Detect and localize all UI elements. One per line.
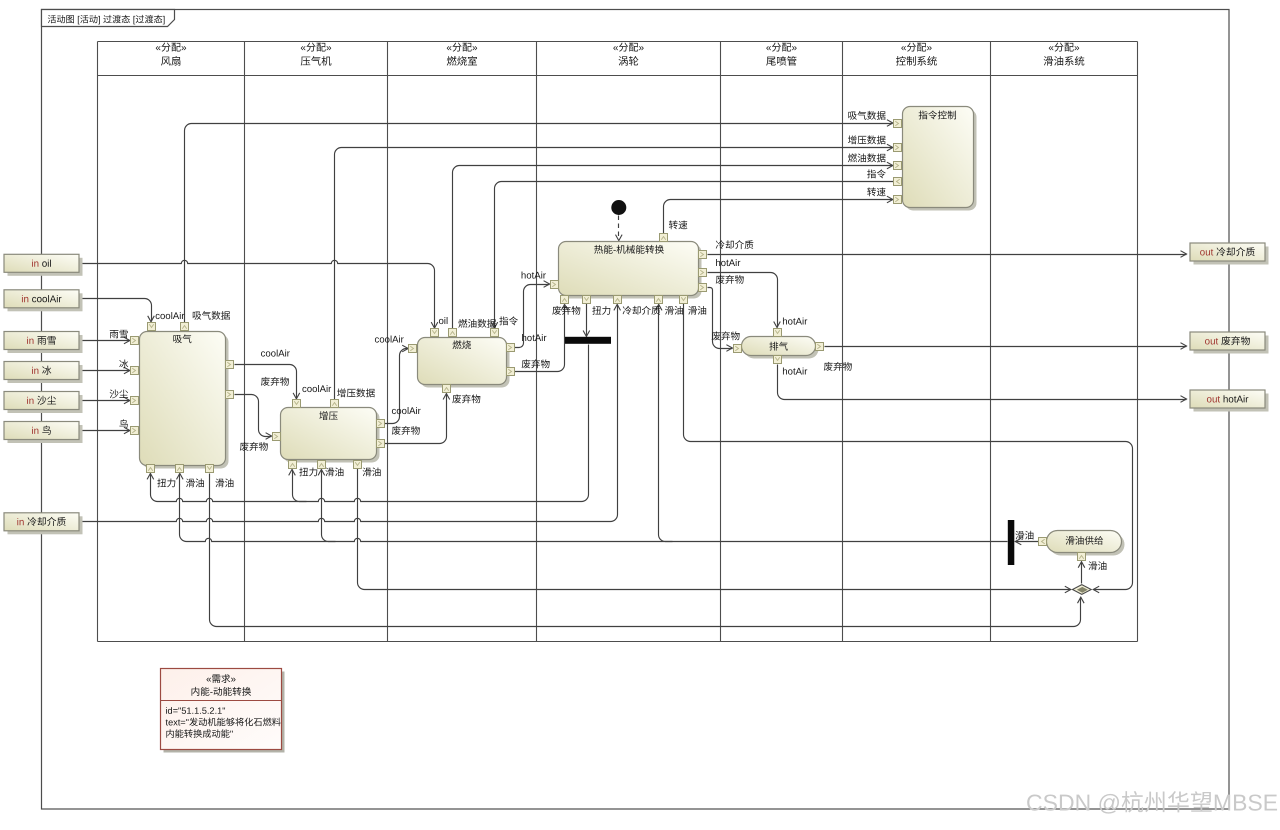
wire 热能.hotAir -> 排气.hotAir (708, 273, 778, 328)
wire in 沙尘 (79, 400, 130, 402)
wire 燃烧.废弃物 -> 热能.废弃物 (515, 305, 565, 372)
wire labels (156, 312, 185, 319)
wire 增压.滑油 -> merge diamond (358, 469, 1071, 590)
wire in oil -> 燃烧.oil (79, 260, 435, 327)
wire 增压.废弃物 -> 燃烧.废弃物 (385, 394, 447, 444)
pins of action 指令控制 (894, 120, 902, 128)
wire 热能.废弃物 -> 排气.废弃物 (708, 288, 733, 349)
pins of action 热能-机械能转换 (660, 234, 668, 242)
wire 吸气数据 -> 指令控制 (185, 124, 893, 323)
action 指令控制 (906, 110, 977, 211)
initial edge (dashed) (618, 216, 620, 240)
pins of action 滑油供给 (1039, 538, 1047, 546)
output parameter nodes: out 冷却介质 / out 废弃物 / out hotAir (1194, 247, 1269, 265)
requirement note «需求» 内能-动能转换 (164, 672, 285, 753)
swimlane headers «分配» 风扇/压气机/燃烧室/涡轮/尾喷管/控制系统/滑油系统 (156, 43, 186, 52)
wire 吸气.废弃物 -> 增压.废弃物 (235, 395, 272, 437)
wire 增压数据 -> 指令控制 (335, 148, 893, 400)
wire 热能.冷却介质 -> out 冷却介质 (708, 254, 1187, 256)
wire bar -> 吸气.扭力 / 增压.扭力 (151, 345, 589, 502)
wire in 鸟 (79, 430, 130, 432)
pins of action 吸气 (148, 323, 156, 331)
pins of action 增压 (293, 400, 301, 408)
wire 燃烧.hotAir -> 热能.hotAir (515, 285, 550, 348)
wire 排气 -> out 废弃物 (825, 346, 1187, 348)
action 燃烧 (421, 341, 510, 388)
pins of action 燃烧 (431, 329, 439, 337)
wire 吸气.滑油 -> merge diamond (bottom) (210, 474, 1081, 627)
wire in 冷却介质 -> 热能.冷却介质 (79, 305, 618, 522)
wire in 雨雪 (79, 340, 130, 342)
wire merge diamond -> 滑油供给 (1081, 563, 1083, 584)
join bar (扭力 fork) (565, 337, 611, 344)
wire 增压.coolAir -> 燃烧.coolAir (385, 349, 409, 424)
wire in 冰 (79, 370, 130, 372)
input parameter nodes: in oil / in coolAir / in 雨雪 / in 冰 / in 沙尘 / in 鸟 / in 冷却介质 (8, 258, 83, 276)
wire 热能.扭力 -> join bar (586, 304, 588, 337)
frame tab 活动图 [活动] 过渡态 [过渡态] (42, 10, 175, 27)
wire fork bar -> 滑油 ins (180, 474, 1008, 542)
merge node (diamond) (1073, 585, 1092, 595)
fork bar (滑油 distribution) (1008, 520, 1015, 565)
action 吸气 (143, 335, 229, 469)
wire 燃油数据 -> 指令控制 (453, 166, 893, 329)
wire 转速 -> 指令控制 (664, 200, 893, 234)
swimlane grid (7 lanes) (98, 42, 1138, 642)
pins of action 排气 (734, 345, 742, 353)
action 热能-机械能转换 (562, 245, 702, 299)
action 滑油供给 (1050, 534, 1125, 556)
wire 热能.滑油 -> merge diamond (right) (684, 304, 1133, 590)
wire in coolAir -> 吸气.coolAir (79, 299, 152, 322)
action 排气 (745, 340, 819, 359)
wire 指令控制.指令 -> 燃烧.指令 (495, 182, 894, 328)
action 增压 (284, 411, 380, 463)
initial node (611, 200, 626, 215)
wire 排气.hotAir -> out hotAir (778, 365, 1187, 400)
watermark CSDN @杭州华望MBSE (1027, 791, 1277, 814)
wire 滑油供给 -> fork bar (1016, 541, 1039, 543)
wire 吸气.coolAir -> 增压.coolAir (235, 365, 297, 399)
